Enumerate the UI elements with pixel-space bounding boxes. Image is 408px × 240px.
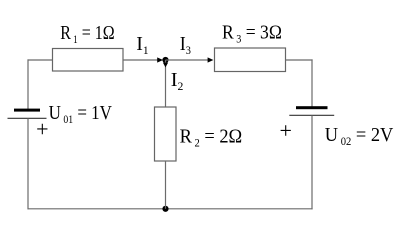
resistor R1 (53, 49, 124, 72)
svg-text:I3: I3 (180, 33, 192, 57)
battery U01 short thick plate (14, 109, 40, 112)
node A (top junction) (162, 57, 168, 63)
resistor R2 (155, 107, 177, 161)
svg-text:R 2 = 2Ω: R 2 = 2Ω (180, 126, 243, 150)
arrowhead I2 (163, 63, 168, 68)
battery U01 long thin plate (8, 117, 47, 119)
wire: bottom rail (28, 208, 313, 210)
svg-text:+: + (36, 116, 48, 141)
wire top-left: left rail to R1 (28, 59, 54, 61)
svg-text:I1: I1 (136, 33, 149, 57)
node B (bottom junction) (162, 206, 168, 212)
arrowhead I1 (157, 57, 163, 62)
svg-text:I2: I2 (171, 69, 184, 93)
wire: left rail lower (27, 118, 29, 209)
wire: right rail lower (311, 115, 313, 209)
svg-text:R 3 = 3Ω: R 3 = 3Ω (222, 22, 282, 46)
svg-text:+: + (280, 118, 292, 143)
battery U02 short thick plate (296, 106, 328, 109)
svg-text:R 1 = 1Ω: R 1 = 1Ω (60, 21, 114, 46)
arrowhead I3 (208, 57, 214, 62)
resistor R3 (215, 48, 286, 72)
wire: right rail upper (311, 59, 313, 107)
svg-text:U 01 = 1V: U 01 = 1V (49, 102, 113, 126)
wire: R2 to node B (165, 161, 167, 209)
wire: node A to R3 (166, 59, 209, 61)
battery U02 long thin plate (289, 114, 334, 116)
svg-text:U 02 = 2V: U 02 = 2V (325, 124, 394, 148)
wire: left rail upper (27, 59, 29, 109)
wire: R1 to node A (123, 59, 158, 61)
wire: R3 to right rail (286, 59, 313, 61)
wire: node A down to R2 (165, 60, 167, 108)
